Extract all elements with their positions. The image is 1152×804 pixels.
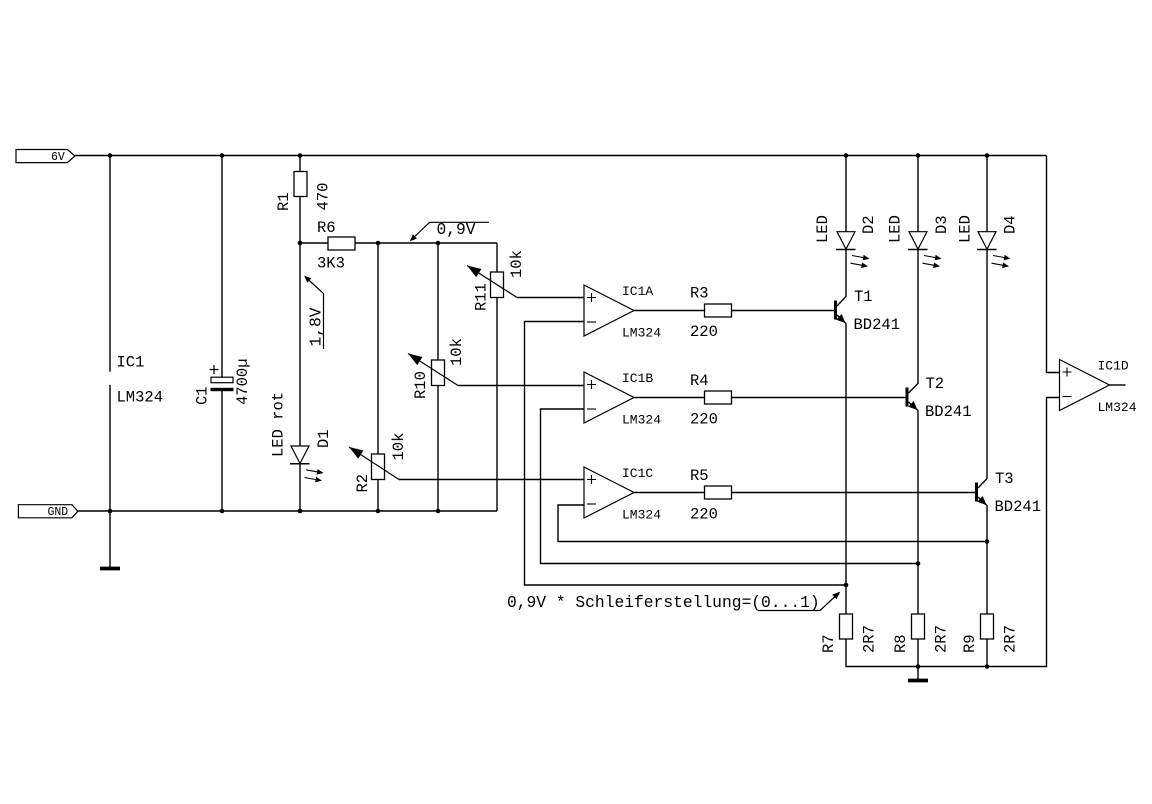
svg-text:0,9V: 0,9V (437, 220, 476, 239)
wire C1 column lower (221, 391, 223, 511)
junction GND rail / D1 (298, 509, 303, 514)
junction GND rail / C1 (220, 509, 225, 514)
svg-text:6V: 6V (51, 151, 65, 164)
wire R10 column (437, 243, 439, 511)
junction 6V rail / R1 (298, 153, 303, 158)
svg-text:IC1D: IC1D (1098, 359, 1129, 374)
wire R10 wiper to IC1B + (458, 385, 584, 387)
wire R11 column (0,9V node down to GND rail) (496, 243, 498, 511)
svg-text:T1: T1 (854, 288, 873, 306)
junction bottom rail / R9 (985, 664, 990, 669)
svg-text:2R7: 2R7 (861, 625, 879, 653)
wire IC1 supply column upper (109, 156, 111, 372)
potentiometer R2 (372, 454, 385, 480)
junction GND rail / ground (108, 509, 113, 514)
transistor T3 (975, 483, 978, 502)
svg-text:10k: 10k (508, 250, 526, 278)
junction 6V rail / D3 (916, 153, 921, 158)
svg-text:BD241: BD241 (854, 316, 901, 334)
junction 6V rail / D4 (985, 153, 990, 158)
svg-text:BD241: BD241 (925, 403, 972, 421)
wire T3 emitter to R9 (978, 497, 987, 614)
junction T2 emitter / IC1B feedback (916, 561, 921, 566)
junction T3 emitter / IC1C feedback (985, 539, 990, 544)
wire R2 wiper to IC1C + (399, 479, 584, 481)
svg-text:220: 220 (690, 410, 718, 428)
svg-text:10k: 10k (448, 338, 466, 366)
LED D2 (837, 232, 855, 250)
junction GND rail / R10 (436, 509, 441, 514)
wire R11 wiper to IC1A + (517, 297, 584, 299)
wire top rail to D2 anode (845, 156, 847, 232)
svg-text:LM324: LM324 (1098, 400, 1137, 415)
junction node 0,9V / R1-R6 (298, 241, 303, 246)
wire right column from top rail to IC1D + input (1047, 156, 1060, 373)
svg-text:LED: LED (887, 215, 905, 243)
wire IC1C - feedback to T3 emitter node (558, 505, 987, 542)
supply flag GND (18, 505, 77, 518)
wire IC1 supply column lower (109, 385, 111, 567)
wire D1 cathode to GND rail (299, 464, 301, 512)
svg-text:0,9V * Schleiferstellung=(0...: 0,9V * Schleiferstellung=(0...1) (507, 593, 820, 612)
svg-text:R8: R8 (892, 634, 910, 653)
svg-text:LED: LED (814, 215, 832, 243)
svg-text:R6: R6 (317, 219, 336, 237)
svg-text:IC1B: IC1B (622, 371, 653, 386)
wire 6V top rail (75, 155, 1047, 157)
svg-text:D3: D3 (933, 215, 951, 234)
wire IC1B output to R4 (634, 397, 705, 399)
LED D4 (978, 232, 996, 250)
LED D1 (291, 446, 309, 464)
potentiometer R10 (432, 360, 445, 386)
resistor R9 (981, 614, 994, 639)
node label 0,9V with leader arrow (411, 222, 489, 240)
svg-text:IC1A: IC1A (622, 284, 653, 299)
junction GND rail / R2 (376, 509, 381, 514)
svg-text:D4: D4 (1002, 215, 1020, 234)
wire D4 cathode to T3 collector (978, 250, 987, 489)
op-amp IC1A (584, 285, 634, 336)
capacitor C1 (211, 377, 233, 383)
junction 6V rail / D2 (844, 153, 849, 158)
svg-text:R7: R7 (820, 634, 838, 653)
svg-text:220: 220 (690, 505, 718, 523)
svg-text:LED rot: LED rot (269, 392, 287, 457)
wire IC1A - feedback to T1 emitter node (525, 322, 847, 586)
node label 1,8V with leader arrow (306, 277, 324, 349)
svg-text:R4: R4 (690, 372, 709, 390)
junction node 0,9V / R10 (436, 241, 441, 246)
svg-text:T2: T2 (926, 375, 945, 393)
svg-text:2R7: 2R7 (1002, 625, 1020, 653)
resistor R4 (705, 391, 732, 404)
svg-text:IC1C: IC1C (622, 466, 653, 481)
wire R8 bottom to rail (917, 639, 919, 667)
supply flag 6V (16, 150, 75, 163)
wire IC1B - feedback to T2 emitter node (541, 409, 919, 564)
svg-text:R3: R3 (690, 285, 709, 303)
wire IC1A output to R3 (634, 310, 705, 312)
svg-text:2R7: 2R7 (933, 625, 951, 653)
svg-text:3K3: 3K3 (317, 255, 345, 273)
resistor R3 (705, 304, 732, 317)
op-amp IC1B (584, 372, 634, 423)
svg-text:470: 470 (315, 183, 333, 211)
wire R1/D1 column upper (299, 156, 301, 447)
wire D3 cathode to T2 collector (909, 250, 919, 394)
svg-text:D2: D2 (860, 215, 878, 234)
wire R3 to T1 base (732, 310, 835, 312)
resistor R6 (328, 237, 355, 250)
svg-text:220: 220 (690, 323, 718, 341)
svg-text:R10: R10 (412, 371, 430, 399)
svg-text:IC1: IC1 (117, 354, 145, 372)
resistor R7 (840, 614, 853, 639)
op-amp IC1D (1060, 360, 1110, 411)
wire C1 column upper (221, 156, 223, 378)
junction T1 emitter / IC1A feedback (844, 583, 849, 588)
wire emitter resistor bottom rail to IC1D - input (846, 398, 1060, 667)
resistor R5 (705, 486, 732, 499)
wire GND rail (78, 510, 497, 512)
svg-text:R9: R9 (961, 634, 979, 653)
LED D3 (909, 232, 927, 250)
svg-text:LM324: LM324 (622, 326, 661, 341)
wire R9 bottom to rail (986, 639, 988, 667)
wire R4 to T2 base (732, 397, 906, 399)
ground symbol left (100, 567, 120, 571)
wire T1 emitter to R7 (837, 315, 846, 614)
junction 6V rail / IC1 supply (108, 153, 113, 158)
junction node 0,9V / R2 (376, 241, 381, 246)
op-amp IC1C (584, 467, 634, 518)
svg-text:LM324: LM324 (622, 413, 661, 428)
wire T2 emitter to R8 (909, 402, 919, 614)
svg-text:C1: C1 (194, 386, 212, 405)
wire R2 column (377, 243, 379, 511)
transistor T1 (834, 301, 837, 320)
svg-text:R1: R1 (275, 192, 293, 211)
resistor R8 (912, 614, 925, 639)
wire IC1C output to R5 (634, 492, 705, 494)
wire R5 to T3 base (732, 492, 976, 494)
svg-text:4700µ: 4700µ (234, 358, 252, 405)
svg-text:D1: D1 (315, 429, 333, 448)
junction 6V rail / C1 (220, 153, 225, 158)
transistor T2 (906, 388, 909, 407)
svg-text:1,8V: 1,8V (307, 307, 326, 346)
wire D2 cathode to T1 collector (837, 250, 846, 307)
junction bottom rail / R8-ground (916, 664, 921, 669)
resistor R1 (294, 172, 307, 197)
wire top rail to D3 anode (917, 156, 919, 232)
svg-text:LED: LED (957, 215, 975, 243)
svg-text:T3: T3 (995, 470, 1014, 488)
svg-text:GND: GND (48, 506, 69, 519)
svg-text:R5: R5 (690, 467, 709, 485)
wire top rail to D4 anode (986, 156, 988, 232)
svg-text:10k: 10k (390, 433, 408, 461)
svg-text:LM324: LM324 (622, 508, 661, 523)
ground symbol bottom (917, 667, 919, 680)
potentiometer R11 (491, 272, 504, 298)
svg-text:R11: R11 (473, 283, 491, 311)
wire 0,9V node horizontal (300, 242, 497, 244)
svg-text:R2: R2 (354, 474, 372, 493)
svg-text:LM324: LM324 (117, 389, 164, 407)
svg-text:BD241: BD241 (995, 498, 1042, 516)
